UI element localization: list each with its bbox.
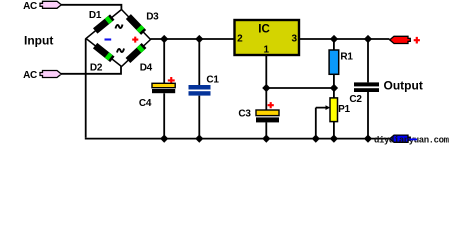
svg-text:R1: R1 [340,51,353,62]
svg-text:Output: Output [384,79,423,93]
svg-text:C1: C1 [206,75,219,86]
svg-text:AC: AC [23,70,37,81]
svg-text:P1: P1 [338,104,350,115]
svg-text:C4: C4 [139,98,152,109]
svg-text:Input: Input [24,34,53,48]
svg-text:D2: D2 [90,62,103,73]
svg-text:AC: AC [23,1,37,12]
svg-text:D4: D4 [140,63,153,74]
svg-text:3: 3 [291,33,297,44]
svg-text:1: 1 [263,44,269,55]
svg-text:IC: IC [258,23,270,35]
svg-text:C3: C3 [238,109,251,120]
svg-text:2: 2 [237,33,243,44]
svg-text:D1: D1 [89,10,102,21]
svg-text:D3: D3 [146,12,159,23]
svg-text:C2: C2 [349,94,362,105]
